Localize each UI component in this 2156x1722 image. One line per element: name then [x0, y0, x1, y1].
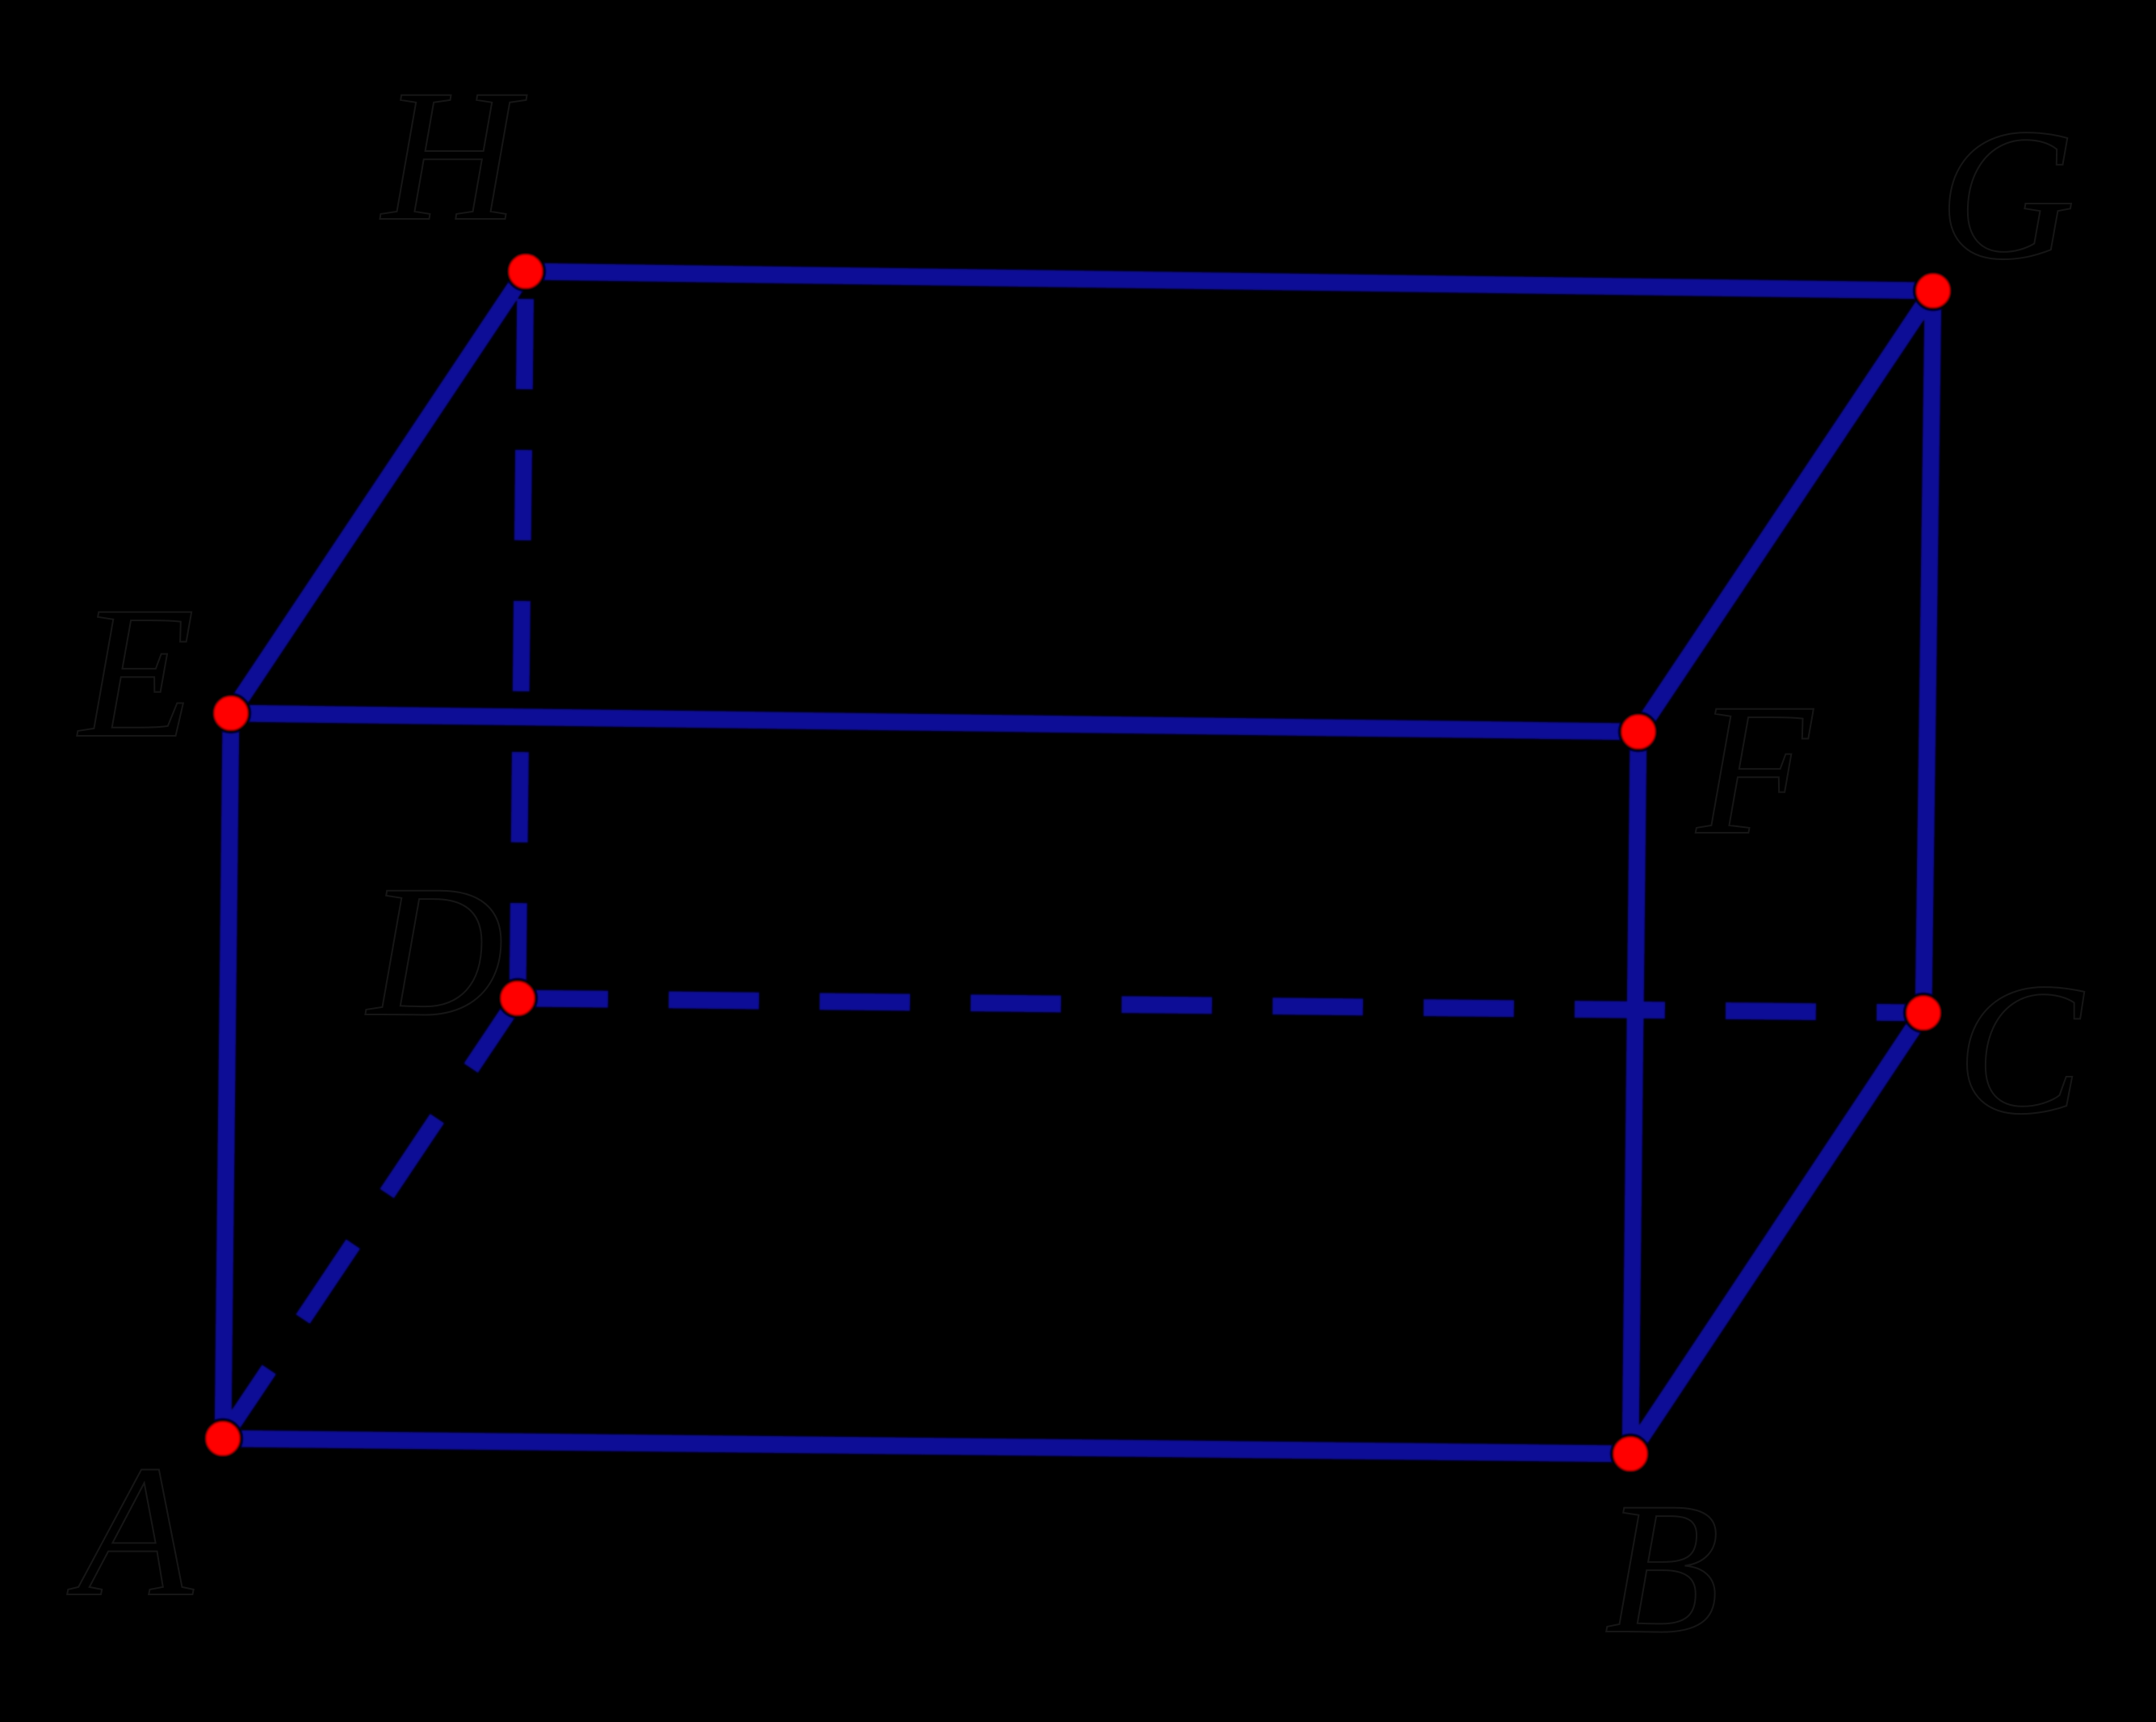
- svg-text:F: F: [1695, 664, 1814, 874]
- svg-text:D: D: [365, 846, 504, 1056]
- svg-text:G: G: [1939, 89, 2075, 299]
- svg-text:E: E: [77, 567, 195, 777]
- svg-text:C: C: [1957, 943, 2085, 1153]
- svg-text:B: B: [1604, 1463, 1720, 1673]
- svg-text:H: H: [380, 50, 527, 260]
- svg-text:A: A: [67, 1426, 194, 1636]
